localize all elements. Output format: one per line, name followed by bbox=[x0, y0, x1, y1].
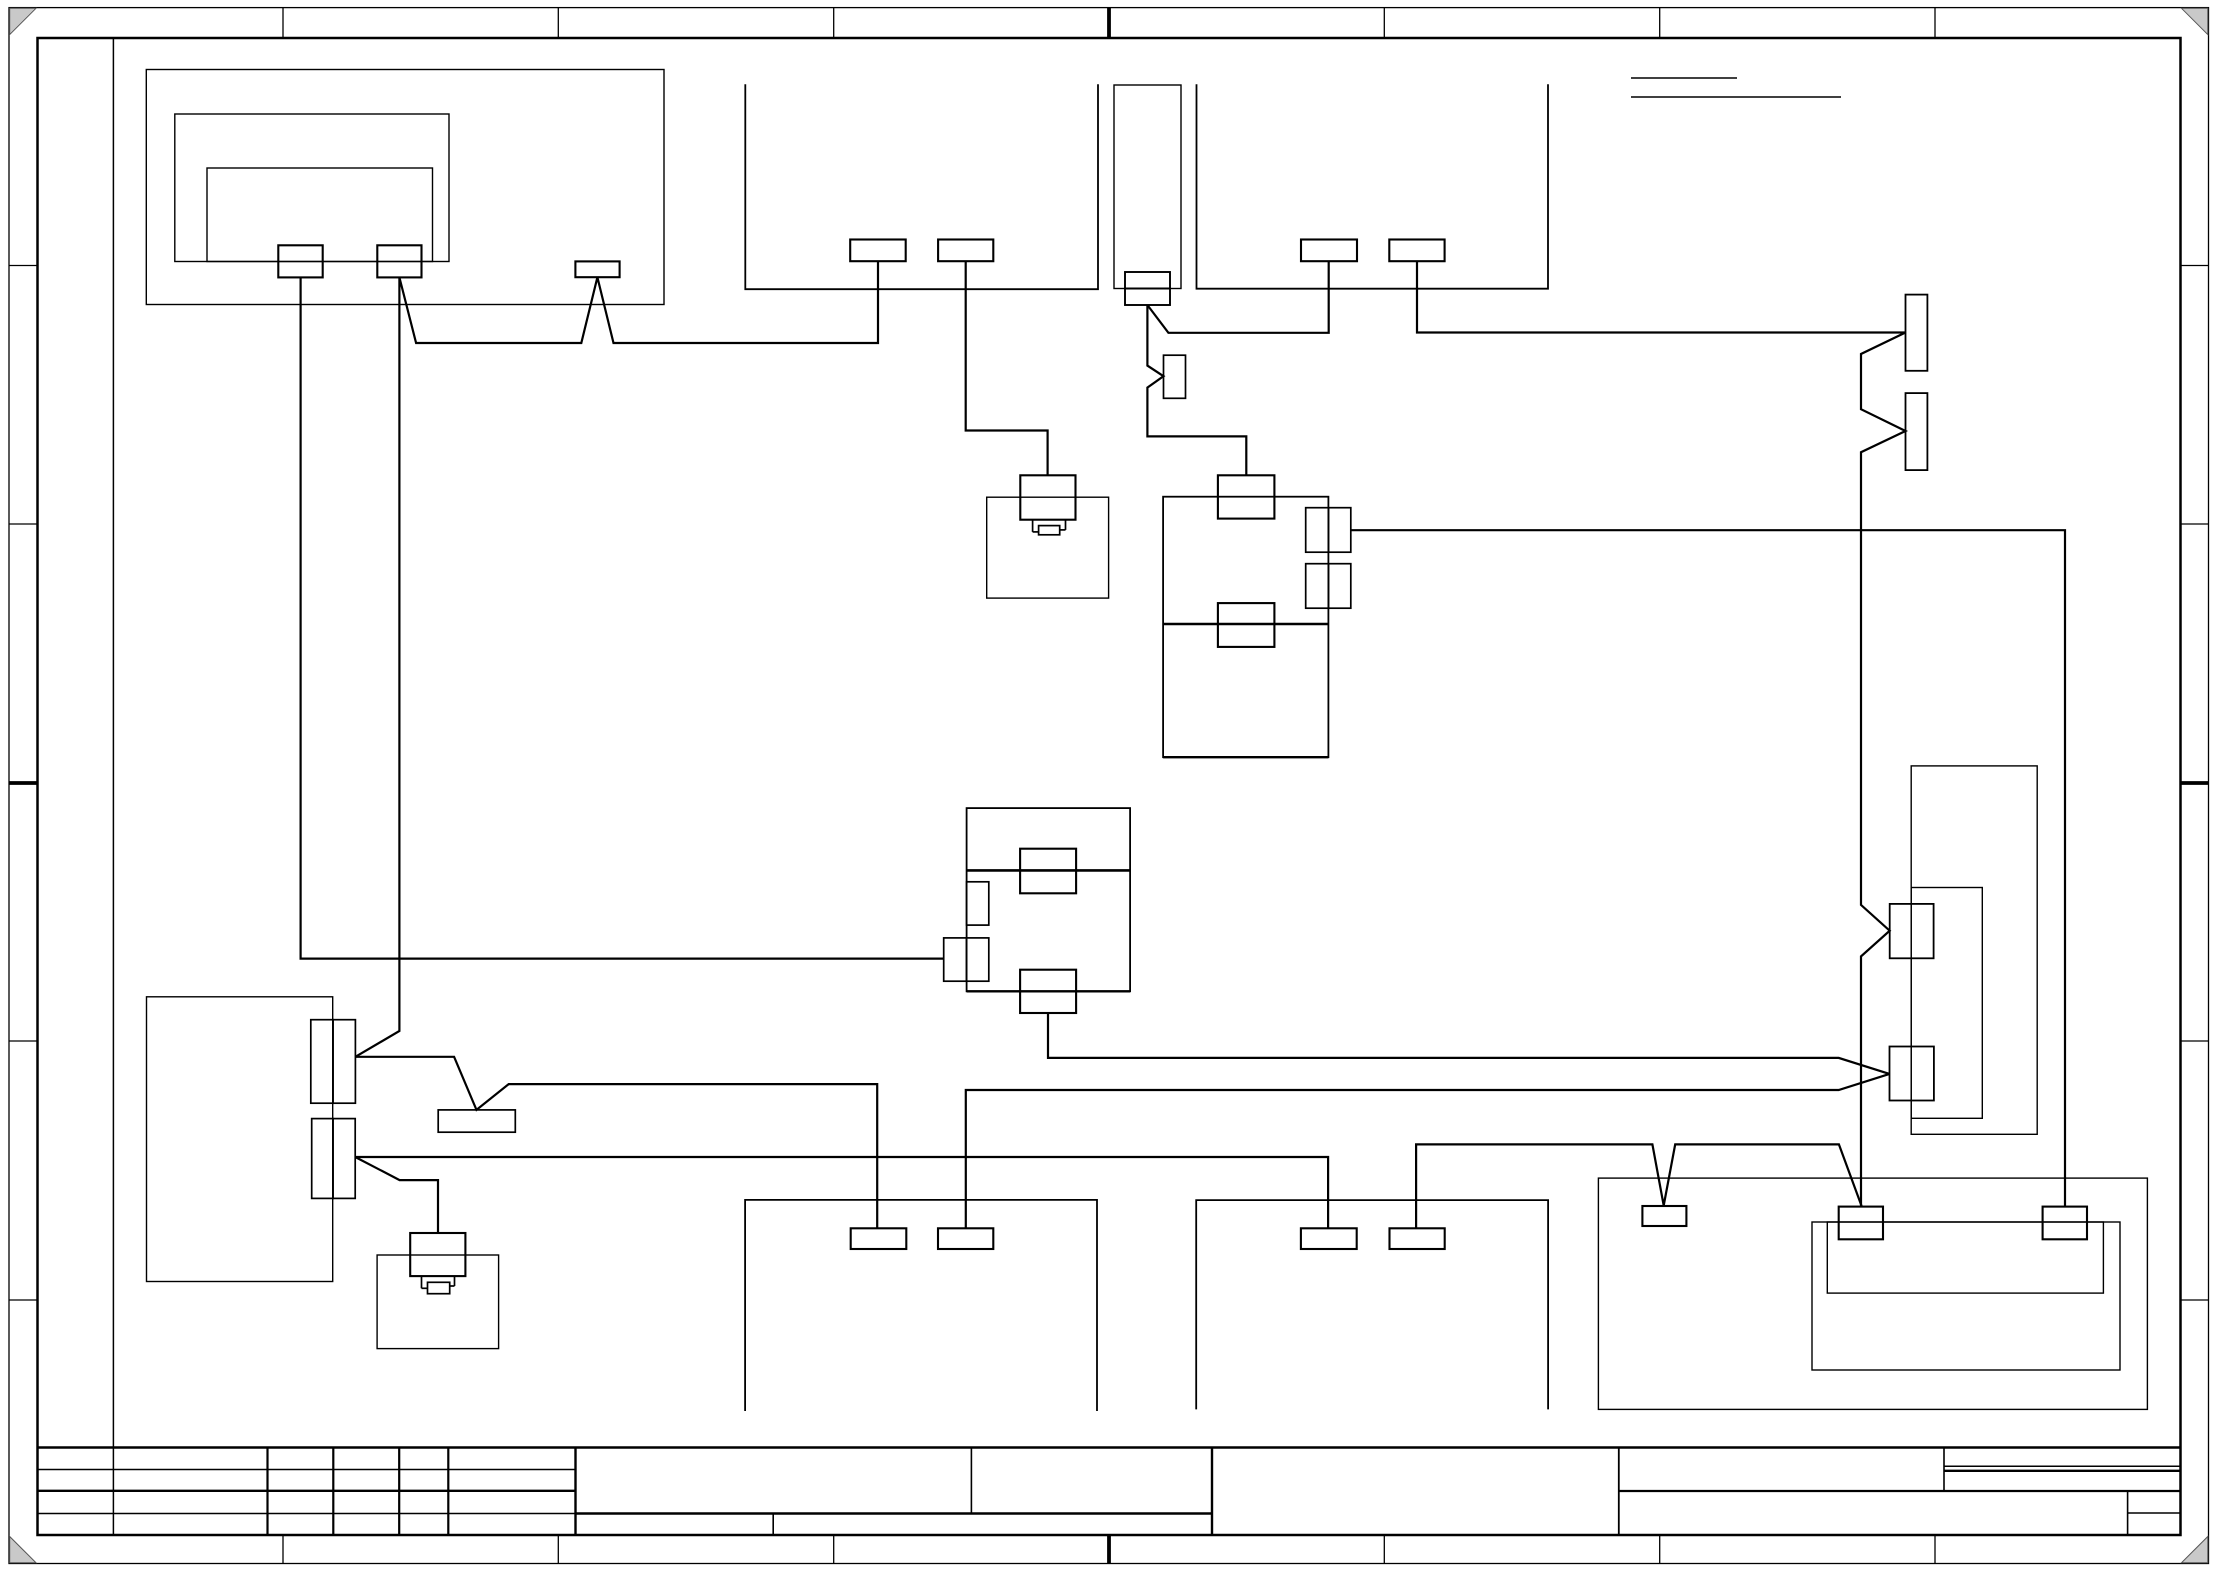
zone tick left 1 bbox=[9, 265, 38, 267]
right connector R1 bbox=[1906, 295, 1928, 371]
lamp plug P right stub bbox=[450, 1285, 455, 1287]
module G outline bbox=[967, 808, 1131, 991]
title middle small divider bbox=[772, 1514, 774, 1536]
edge pair N2 outer bbox=[312, 1119, 333, 1199]
wire N1 to R1b via splice O bbox=[355, 1057, 877, 1229]
zone tick right 1 bbox=[2181, 265, 2209, 267]
module I edge pair upper inner bbox=[1328, 508, 1350, 553]
right arrow connector T1 bbox=[1890, 1047, 1934, 1101]
revision table column line d bbox=[447, 1448, 449, 1536]
pointer box at relay wire bbox=[1164, 355, 1186, 398]
wire module I to T3 bbox=[1351, 530, 2065, 1206]
title right section divider (thick) bbox=[1211, 1448, 1213, 1536]
device frame A (open top) bbox=[745, 84, 1098, 289]
zone tick left 2 bbox=[9, 523, 38, 525]
control unit outline (top-left) bbox=[146, 70, 664, 305]
module I edge pair lower inner bbox=[1328, 564, 1350, 609]
sensor body F bbox=[987, 497, 1109, 598]
sensor plug E mini plug bbox=[1039, 526, 1060, 535]
zone tick right 4 bbox=[2181, 1040, 2209, 1042]
zone tick bottom 4 bbox=[1107, 1535, 1111, 1564]
zone tick top 7 bbox=[1934, 8, 1936, 38]
sensor plug E right stub bbox=[1060, 529, 1066, 531]
module I connector J bbox=[1218, 603, 1275, 647]
tall relay box bbox=[1114, 85, 1181, 289]
zone tick top 2 bbox=[557, 8, 559, 38]
relay connector lower half bbox=[1125, 289, 1170, 306]
connector C3 bbox=[575, 261, 619, 277]
reference line 1 bbox=[1631, 77, 1737, 79]
zone tick left 4 bbox=[9, 1040, 38, 1042]
wire bus C2-C3-A1 bbox=[399, 261, 878, 343]
module G connector L bbox=[1020, 970, 1076, 1013]
wire R2b to T1 (bus B) bbox=[966, 1074, 1890, 1228]
connector C1 bbox=[278, 245, 322, 277]
module I outline bbox=[1163, 497, 1328, 758]
wire N2 to plug P bbox=[355, 1157, 438, 1233]
device frame B (open top) bbox=[1197, 84, 1549, 289]
zone tick top 6 bbox=[1659, 8, 1661, 38]
module I bottom emphasis bbox=[1163, 756, 1328, 758]
title right small cell divider bbox=[2127, 1491, 2129, 1535]
sensor plug E left stub bbox=[1033, 531, 1039, 533]
module G connector K bbox=[1020, 849, 1076, 894]
left margin column line bbox=[112, 38, 114, 1535]
module G left pair M2 outer bbox=[944, 938, 967, 981]
connector S2 bbox=[1390, 1228, 1445, 1249]
module I edge pair lower outer bbox=[1306, 564, 1329, 609]
control unit core block bbox=[207, 168, 433, 262]
module G left connector M1 bbox=[967, 882, 989, 925]
wire C1 to M2 bbox=[301, 277, 944, 958]
revision table column line a bbox=[266, 1448, 268, 1536]
zone tick right 2 bbox=[2181, 523, 2209, 525]
lamp plug P right leg bbox=[454, 1276, 456, 1286]
right pigtail box V1 bbox=[1890, 904, 1934, 958]
edge pair N1 outer bbox=[311, 1020, 333, 1103]
connector T2 bbox=[1839, 1207, 1883, 1240]
title right divider at 1619 bbox=[1618, 1448, 1620, 1536]
lamp plug P bbox=[410, 1233, 465, 1276]
module I edge pair upper outer bbox=[1306, 508, 1329, 553]
connector R1b bbox=[851, 1228, 907, 1249]
connector C2 bbox=[377, 245, 421, 277]
connector T0 bbox=[1642, 1206, 1686, 1226]
edge pair N1 inner bbox=[333, 1020, 355, 1103]
title right horizontal rule bbox=[1619, 1490, 2180, 1492]
reference line 2 bbox=[1631, 96, 1841, 98]
control unit inner frame bbox=[175, 114, 449, 262]
module H connector bbox=[1218, 475, 1275, 518]
zone tick right 3 bbox=[2181, 781, 2209, 785]
zone tick top 5 bbox=[1383, 8, 1385, 38]
bottom-right inner box X2 bbox=[1827, 1222, 2103, 1293]
module G left pair M2 inner bbox=[967, 938, 989, 981]
zone tick bottom 2 bbox=[557, 1535, 559, 1564]
zone tick bottom 7 bbox=[1934, 1535, 1936, 1564]
title right small cell rule bbox=[2128, 1512, 2180, 1514]
zone tick left 3 bbox=[9, 781, 38, 785]
title middle horizontal rule (thick) bbox=[576, 1512, 1213, 1515]
bottom device U1 (open bottom) bbox=[745, 1200, 1097, 1411]
title right upper divider bbox=[1943, 1448, 1945, 1492]
wire relay to B1 bbox=[1147, 261, 1328, 333]
corner triangle bottom-left bbox=[10, 1537, 36, 1563]
sensor plug E bbox=[1020, 475, 1075, 519]
bottom-left unit outline bbox=[147, 997, 333, 1282]
wire C2 to N1 bbox=[355, 277, 399, 1056]
module G divider (thick) bbox=[967, 869, 1131, 872]
connector A1 bbox=[850, 240, 906, 262]
lamp plug P left leg bbox=[421, 1276, 423, 1288]
corner triangle bottom-right bbox=[2182, 1537, 2208, 1563]
wire L to T1 (bus A) bbox=[1048, 1013, 1890, 1074]
zone tick bottom 5 bbox=[1383, 1535, 1385, 1564]
revision table row 2 rule (thick) bbox=[38, 1490, 576, 1492]
zone tick left 5 bbox=[9, 1299, 38, 1301]
revision table right edge bbox=[574, 1448, 576, 1536]
edge pair N2 inner bbox=[333, 1119, 355, 1199]
sensor plug E left leg bbox=[1032, 520, 1034, 532]
title centre divider bbox=[970, 1448, 972, 1514]
title right row rule thick bbox=[1944, 1470, 2180, 1472]
lamp body Q bbox=[377, 1255, 499, 1349]
connector S1 bbox=[1301, 1228, 1357, 1249]
revision table row 1 rule bbox=[38, 1469, 576, 1471]
splice box O bbox=[438, 1110, 515, 1132]
connector B1 bbox=[1301, 240, 1357, 262]
wire relay to module H bbox=[1147, 305, 1246, 475]
wire S2 to T0 to T2 bbox=[1416, 1144, 1862, 1228]
zone tick right 5 bbox=[2181, 1299, 2209, 1301]
bottom-right unit outline W bbox=[1598, 1178, 2147, 1409]
title right row rule thin bbox=[1944, 1465, 2180, 1467]
revision table row 3 rule bbox=[38, 1513, 576, 1515]
revision table column line b bbox=[332, 1448, 334, 1536]
right connector R2 bbox=[1906, 393, 1928, 470]
zone tick bottom 6 bbox=[1659, 1535, 1661, 1564]
bottom-right inner box X1 bbox=[1812, 1222, 2120, 1370]
zone tick top 1 bbox=[282, 8, 284, 38]
connector T3 bbox=[2043, 1207, 2087, 1240]
wire B2 to right connectors bbox=[1417, 261, 1906, 1206]
bottom device U2 (open bottom) bbox=[1196, 1200, 1548, 1409]
connector R2b bbox=[938, 1228, 993, 1249]
title block top rule (thick) bbox=[38, 1446, 2181, 1449]
lamp plug P left stub bbox=[422, 1287, 428, 1289]
module G bottom emphasis bbox=[967, 990, 1131, 992]
relay connector upper half bbox=[1125, 272, 1170, 289]
zone tick top 4 bbox=[1107, 8, 1111, 38]
corner triangle top-left bbox=[10, 8, 36, 34]
sensor plug E right leg bbox=[1065, 520, 1067, 530]
tall inner box B2 bbox=[1911, 888, 1982, 1119]
tall inner box A2 bbox=[1911, 766, 2037, 1134]
wire A2 to plug E bbox=[966, 261, 1048, 475]
wire N2 to S1 bbox=[355, 1157, 1328, 1228]
connector A2 bbox=[938, 240, 993, 262]
zone tick top 3 bbox=[833, 8, 835, 38]
connector B2 bbox=[1389, 240, 1444, 262]
corner triangle top-right bbox=[2182, 8, 2208, 34]
lamp plug P mini plug bbox=[428, 1282, 450, 1293]
revision table column line c bbox=[398, 1448, 400, 1536]
zone tick bottom 1 bbox=[282, 1535, 284, 1564]
zone tick bottom 3 bbox=[833, 1535, 835, 1564]
module I divider (thick) bbox=[1163, 623, 1328, 626]
